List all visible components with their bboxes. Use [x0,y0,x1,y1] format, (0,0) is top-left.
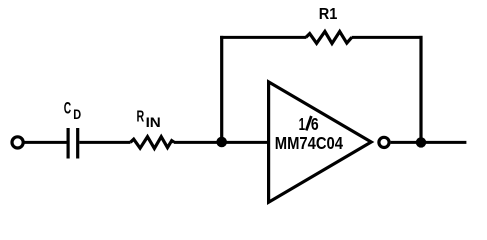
node junction dot left [216,137,227,148]
op-amp U1 inverter triangle [269,82,372,202]
wire input to capacitor [23,141,66,144]
svg-text:R: R [137,109,145,126]
wire vertical right feedback [419,36,422,142]
svg-text:6: 6 [311,114,319,134]
svg-text:R1: R1 [319,6,338,23]
wire output [421,141,466,144]
resistor RIN [130,137,174,149]
capacitor CD [68,128,78,159]
resistor R1 [306,32,352,44]
label RIN [137,109,161,130]
wire vertical left feedback [220,36,223,142]
wire bubble to junction [391,141,421,144]
wire top right segment [352,36,423,39]
node junction dot right [416,137,426,147]
input terminal [12,137,23,148]
inverter output bubble [379,137,389,147]
wire capacitor to resistor RIN [79,141,130,144]
svg-text:C: C [64,98,71,117]
svg-text:IN: IN [146,114,161,130]
wire resistor to inverter input [174,141,268,144]
label CD [64,98,82,121]
wire top left segment [220,36,306,39]
svg-text:1: 1 [299,114,306,134]
svg-text:D: D [73,107,81,122]
svg-text:MM74C04: MM74C04 [275,133,343,153]
